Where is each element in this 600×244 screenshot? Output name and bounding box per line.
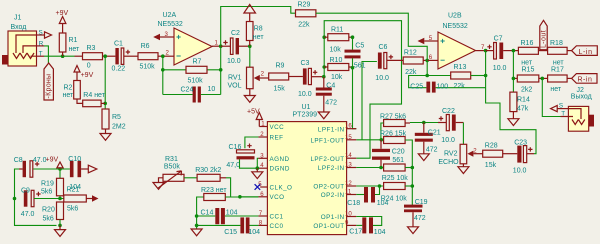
junction +9V node [58,167,62,171]
svg-text:R20: R20 [42,207,55,214]
ground below R14 [508,119,519,126]
svg-text:C10: C10 [68,156,81,163]
pin S stub of J2 [557,108,568,110]
junction feedback left [425,74,429,78]
wire: R23 left rail down to ground [197,197,204,229]
wire R30 right down to VCO node [220,177,226,179]
wire: U2A feedback loop right leg [220,46,222,94]
svg-text:R8: R8 [254,26,263,33]
svg-text:22k: 22k [298,22,310,29]
svg-text:510k: 510k [188,78,204,85]
pin 3 of U2A [160,36,174,38]
open output arrow after C10 [88,165,97,173]
wire R28 to C23 [503,153,518,155]
resistor R25 (10k) [382,164,413,182]
svg-text:-Кроны: -Кроны [46,74,53,99]
junction at R3 output [103,54,107,58]
junction pin12/R24/C18 [378,184,382,188]
resistor R15 (2k2) [517,67,539,94]
wire: bias branch down from input line [104,56,106,109]
power +9V at bias node [46,157,64,170]
svg-text:14: 14 [345,152,352,159]
junction VCO node [238,195,242,199]
wire U2B out to C7 [486,50,494,52]
wire R4 to junction [101,102,105,104]
svg-text:NE5532: NE5532 [443,23,468,30]
svg-text:0.22: 0.22 [112,66,126,73]
open arrow at J2 pin S [551,106,558,112]
svg-text:C15: C15 [224,229,237,236]
junction R15 left / R14 [512,77,516,81]
junction C2/R8/RV1 [248,44,252,48]
wire R13 to output leg [471,75,486,77]
open arrow at J1 pin S [45,32,52,38]
svg-text:R11: R11 [331,27,343,34]
junction rail/R24 [411,184,415,188]
svg-text:нет: нет [521,59,533,66]
pin 7 output stub of U2B [476,50,486,52]
svg-text:C9: C9 [21,188,30,195]
resistor R24 (10k) [381,183,413,203]
svg-text:15k: 15k [485,162,497,169]
svg-text:C3: C3 [301,60,310,67]
wire node down to RV1 [249,46,251,67]
resistor R13 (22k) [451,64,471,90]
svg-text:C22: C22 [442,108,455,115]
svg-text:6: 6 [429,54,433,61]
svg-text:нет: нет [69,46,81,53]
resistor R10 (10k) [324,57,352,81]
pin T stub of J1 [37,55,45,57]
capacitor C21 (472) [415,123,441,154]
svg-text:R19: R19 [41,181,54,188]
global label L-out [540,20,548,49]
svg-text:472: 472 [325,99,337,106]
trimmer R31 (B50k) [158,156,184,188]
wire R6 to U2A pin 2 [158,55,167,57]
wire: echo feedback net (pin14 up over to R11/R10 column) [324,21,401,159]
capacitor C23 (10.0) [513,140,533,175]
svg-text:L-in: L-in [579,49,593,56]
junction R10 right / C5 [351,66,355,70]
resistor R3 (0) [83,45,103,70]
ground below RV1 [244,89,255,103]
svg-text:10k: 10k [331,74,343,81]
svg-text:ECHO: ECHO [438,159,459,166]
wire: C25 loop [409,76,486,88]
svg-text:R31: R31 [165,156,178,163]
svg-text:10.0: 10.0 [441,137,455,144]
wire C2 to R8/RV1 node [239,45,250,47]
svg-text:C4: C4 [326,83,335,90]
svg-text:C20: C20 [392,149,405,156]
capacitor C17 (104) [349,217,385,236]
resistor R7 (510k) [186,59,207,85]
wire C10 to arrow [81,168,88,170]
svg-text:C16: C16 [229,144,242,151]
wire R16 to R18 [538,50,547,52]
ground below RV2 [458,164,469,174]
junction divider node [58,197,62,201]
svg-text:15: 15 [345,134,352,141]
wire: U2A output to C2 [221,45,231,47]
pin 6 VCO stub [258,196,267,198]
junction C9 left [13,197,17,201]
wire REF to C16 [245,137,259,148]
svg-text:C25: C25 [410,83,423,90]
svg-text:R6: R6 [141,43,150,50]
svg-text:13: 13 [345,162,352,169]
wire RV2 wiper to R28 [473,153,482,155]
svg-text:1: 1 [215,40,219,47]
svg-text:10.0: 10.0 [298,91,312,98]
global label "-Кроны" [44,63,53,100]
pin 4 DGND stub [258,167,267,169]
svg-text:R29: R29 [298,2,311,9]
svg-text:OP2-IN: OP2-IN [321,192,345,199]
svg-text:R4 нет: R4 нет [83,92,105,99]
pin 3 AGND stub [258,157,267,159]
svg-text:R13: R13 [454,64,467,71]
wire R2 bottom to R4 [77,99,83,103]
svg-text:R-in: R-in [578,77,593,84]
svg-text:R2: R2 [64,85,73,92]
resistor R2 (нет) [63,81,81,100]
pin 12 stub U1 [347,185,357,187]
svg-text:нет: нет [63,92,75,99]
pin 15 stub U1 [347,139,357,141]
svg-text:R30 2k2: R30 2k2 [195,167,221,174]
resistor R6 (510k) [138,43,158,71]
svg-text:VOL: VOL [228,82,242,89]
wire pin 10 hook to C17 right [356,217,381,226]
resistor R27 (5k6) [380,113,406,126]
capacitor C16 (47,0) [226,144,254,170]
svg-text:104: 104 [248,229,260,236]
ground below C4 [318,112,329,119]
potentiometer RV2 (ECHO) [438,144,477,166]
svg-text:R16: R16 [521,40,534,47]
svg-text:R25 10k: R25 10k [382,175,409,182]
pin 8 CC0 stub [258,224,267,226]
wire C9 to divider node [34,198,64,200]
wire C15 left to rail [197,224,241,226]
wire CC1 to C14 [225,215,259,217]
svg-text:10: 10 [208,86,216,93]
wire R12 to U2B pin 6 [423,59,427,61]
wire: U2A output up and over to R29 [221,7,296,47]
svg-text:LPF2-IN: LPF2-IN [318,165,345,172]
power +9V above R2 [74,66,94,81]
svg-text:REF: REF [270,135,284,142]
resistor R9 (15k) [269,63,289,93]
ground below C19 [408,227,419,234]
svg-text:C24: C24 [181,87,194,94]
junction ground node at U1 [255,166,259,170]
resistor R18 (нет) [548,40,568,66]
svg-text:2M2: 2M2 [112,124,126,131]
junction at R4/R5 [103,102,107,106]
svg-text:2: 2 [260,131,264,138]
svg-text:47,0: 47,0 [226,162,240,169]
svg-text:R27 5k6: R27 5k6 [380,113,406,120]
capacitor C6 (10.0) [375,44,393,82]
wire R9 to C3 [289,76,303,78]
wire C7 to R16 [503,50,518,52]
wire RV1 wiper to R9 [260,77,269,79]
svg-text:C21: C21 [428,129,441,136]
capacitor C10 (104) [68,156,81,191]
svg-text:R23 нет: R23 нет [201,187,227,194]
svg-text:3: 3 [260,152,264,159]
capacitor C1 (0.22) [112,41,131,73]
ground below C21 [418,154,429,161]
svg-text:510k: 510k [140,64,156,71]
resistor R14 (47k) [510,78,530,118]
wire: R11/R10 right column down to pin 16 [353,37,357,129]
svg-text:10.0: 10.0 [493,65,507,72]
wire R27 left leg to pin15 node [381,123,384,140]
junction U2B pin6 [425,59,429,63]
IC U1 PT2399 [267,104,346,235]
svg-text:10.0: 10.0 [513,168,527,175]
junction R11 right [351,35,355,39]
pin 1 output stub of U2A [212,45,221,47]
junction rail/R25 [411,166,415,170]
filled output arrow after R21 [92,195,99,202]
svg-text:R28: R28 [485,142,498,149]
capacitor C25 (100) [410,82,448,93]
resistor R12 (22k) [403,49,423,76]
wire: U2A feedback loop left leg [162,56,164,94]
svg-text:R1: R1 [69,37,78,44]
pin 5 stub of U2B [424,40,438,42]
resistor R17 (нет) [548,67,568,93]
bias input arrow at U2B pin 5 [418,38,425,45]
pin 9 stub U1 [347,224,357,226]
resistor R29 (22k) [296,2,316,29]
resistor R30 (2k2) [195,167,221,181]
resistor R5 (2M2) [102,109,126,131]
svg-text:PT2399: PT2399 [293,112,318,119]
no-connect X at pin 5 [255,184,261,190]
capacitor C14 (104) [201,208,238,224]
junction R15/R17/J2 [541,77,545,81]
svg-text:CC0: CC0 [270,223,284,230]
wire R31 to R30 [184,177,197,179]
pin 13 stub U1 [347,167,357,169]
svg-text:C2: C2 [231,30,240,37]
power arrow above R8 [244,5,256,22]
pin T stub of J2 [561,116,569,118]
junction at U2A pin2 node [161,54,165,58]
capacitor C2 (10.0) [223,30,240,65]
svg-text:OP2-OUT: OP2-OUT [313,184,344,191]
op-amp U2B NE5532 [438,13,476,70]
pin 7 CC1 stub [258,215,267,217]
global label L-in [572,46,598,56]
svg-text:R7: R7 [193,59,202,66]
svg-text:C17: C17 [349,228,362,235]
svg-text:R14: R14 [517,97,530,104]
svg-text:104: 104 [377,200,389,207]
wire: C24 row [163,94,221,96]
resistor R19 (5k6) [41,169,64,199]
svg-text:+9V: +9V [46,157,59,164]
svg-text:R3: R3 [87,45,96,52]
svg-text:U1: U1 [302,104,311,111]
capacitor C20 (561) [372,140,405,168]
pin 2 REF stub [258,136,267,138]
wire: input line from J1.T to R3 [44,55,75,57]
wire R15 to R17 [539,77,548,79]
ground below R5 [100,129,111,140]
capacitor C4 (472) [316,77,337,112]
svg-text:6: 6 [260,191,264,198]
svg-text:AGND: AGND [270,156,290,163]
svg-text:12: 12 [345,180,352,187]
wire CC0 to C15 [249,224,258,226]
junction C21/C22/R27 [422,121,426,125]
svg-text:R12: R12 [404,49,417,56]
junction pin15/R26/R27 [380,138,384,142]
svg-text:C14: C14 [201,209,214,216]
svg-text:DGND: DGND [270,166,290,173]
svg-text:L-out: L-out [540,30,547,48]
svg-text:C23: C23 [514,140,527,147]
svg-text:U2B: U2B [448,13,462,20]
svg-text:+9V: +9V [81,72,94,79]
resistor R8 (нет) [246,22,264,47]
wire C8 to +9V node [33,168,70,170]
svg-text:100: 100 [437,83,449,90]
wire C16 bottom to ground node [240,159,258,168]
capacitor C9 (47.0) [21,188,41,218]
svg-text:472: 472 [414,215,426,222]
ground at R31 [153,183,164,190]
wire AGND down to ground node [257,158,258,168]
junction feedback right [484,74,488,78]
ground below U1 pins 3/4 [252,168,263,178]
pin 5 CLK_O stub [260,186,267,188]
svg-text:C18: C18 [347,200,360,207]
wire: U2B feedback left leg [427,60,451,75]
svg-text:R5: R5 [112,114,121,121]
svg-text:472: 472 [426,147,438,154]
junction C14 left [195,214,199,218]
resistor R4 (нет) [83,92,106,107]
ground below R20 [55,225,66,236]
pin 14 stub U1 [347,157,357,159]
svg-text:нет: нет [550,86,562,93]
svg-text:J1: J1 [14,15,22,22]
pin 11 stub U1 [347,194,357,196]
global label R-in [572,74,597,84]
resistor R26 (15k) [380,131,407,144]
svg-text:NE5532: NE5532 [158,21,183,28]
pin 2 stub of U2A [167,55,174,57]
svg-text:R9: R9 [276,63,285,70]
svg-text:22k: 22k [454,83,466,90]
svg-text:5k6: 5k6 [43,216,54,223]
svg-text:R10: R10 [330,57,343,64]
capacitor C3 (10.0) [298,60,317,98]
svg-text:11: 11 [345,189,352,196]
junction R20 bottom [58,224,62,228]
svg-text:Вход: Вход [11,24,27,31]
svg-text:LPF2-OUT: LPF2-OUT [310,156,344,163]
svg-text:R17: R17 [551,67,564,74]
junction C3/C4/R10 [322,75,326,79]
svg-text:R21: R21 [67,187,80,194]
resistor R1 (нет) [59,33,80,56]
junction R10 left [322,65,326,69]
svg-text:15k: 15k [274,86,286,93]
svg-text:8: 8 [259,219,263,226]
capacitor C19 (472) [404,199,428,227]
svg-text:OP1-IN: OP1-IN [321,214,345,221]
power +9V above R1 [56,10,69,33]
junction C15 row [195,224,199,228]
svg-text:R18: R18 [550,40,563,47]
wire C6 to R12 [387,59,403,61]
wire: R29 to U2B pin6 node [316,13,427,60]
wire C14 left to rail [197,215,216,217]
svg-text:CC1: CC1 [270,214,284,221]
svg-text:RV2: RV2 [444,150,458,157]
pin 6 stub of U2B [427,59,438,61]
svg-text:LPF1-IN: LPF1-IN [318,127,345,134]
svg-text:561: 561 [392,157,404,164]
resistor R11 (10k) [324,27,352,54]
junction R7 left [161,68,165,72]
svg-text:RV1: RV1 [228,75,242,82]
svg-text:C8: C8 [14,157,23,164]
svg-text:B50k: B50k [164,164,180,171]
op-amp U2A NE5532 [158,12,213,65]
wire: down from C7 node to R15 [512,51,514,79]
svg-text:VCO: VCO [270,194,285,201]
potentiometer RV1 (VOL) [228,67,265,89]
svg-text:7: 7 [259,210,263,217]
svg-text:+9V: +9V [56,10,69,17]
capacitor C8 (47.0) [14,157,47,177]
svg-text:Выход: Выход [571,93,592,100]
svg-text:5: 5 [429,35,433,42]
svg-text:10.0: 10.0 [227,58,241,65]
wire R15 junction down to J2.T [542,78,560,116]
svg-text:561: 561 [354,63,366,70]
svg-text:16: 16 [345,123,352,130]
wire: pin 15 to R26 and up to C6 [356,62,381,140]
wire from pin R down to battery label [44,46,48,63]
pin 10 stub U1 [347,216,357,218]
wire: R7 row [163,69,221,71]
wire R3 to C1 [103,55,116,57]
wire pin 12 to R24 [356,185,383,187]
wire R17 to R-in [567,77,572,79]
svg-text:OP1-OUT: OP1-OUT [313,223,344,230]
wire C22 to RV2 [456,122,464,124]
ground below rail [191,229,202,236]
wire R27 right to C21/C22 node [405,122,410,124]
svg-text:47.0: 47.0 [21,211,35,218]
pin S stub of J1 [37,34,45,36]
resistor R16 (нет) [518,40,538,66]
svg-text:10: 10 [345,211,352,218]
svg-text:C6: C6 [379,44,388,51]
junction R11 left [322,35,326,39]
